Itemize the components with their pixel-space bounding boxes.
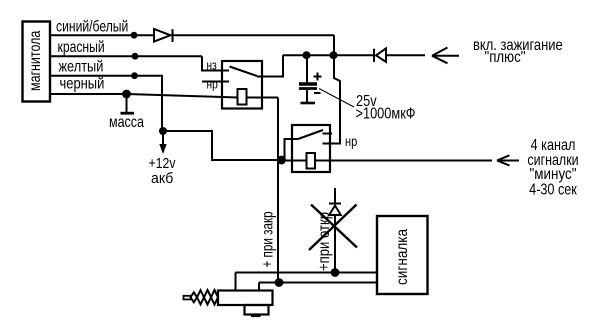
diode VD1 on синий/белый [154,29,171,42]
relay K1 switch arm [230,67,258,77]
arrow to alarm channel [497,160,519,162]
node К2 common junction [277,156,286,165]
relay K1 coil [238,89,247,105]
actuator body [218,291,273,306]
wire желтый [50,76,162,131]
wire coil/node/закр vertical [277,98,279,283]
relay K1 common wire [257,55,283,76]
actuator bellows [191,292,198,302]
relay K2 upper contact [323,133,333,135]
svg-text:нр: нр [207,77,218,91]
svg-text:4-30 сек: 4-30 сек [529,181,577,199]
svg-text:акб: акб [151,171,173,187]
svg-text:черный: черный [60,75,105,93]
wire top horizontal to cap node [333,35,335,55]
label + capacitor [314,76,322,78]
svg-text:синий/белый: синий/белый [56,18,128,36]
wire +12v to node [163,131,282,160]
annotation line 25v [319,89,354,108]
relay K2 switch arm [298,130,323,139]
svg-text:нз: нз [207,58,217,72]
actuator rod tip [184,296,192,300]
wire 4 канал [330,160,492,162]
svg-text:>1000мкФ: >1000мкФ [356,105,416,123]
relay K2 box [292,125,330,172]
label - capacitor [314,92,321,94]
wire to сигналка opening [259,282,377,284]
сигналка box [377,216,428,294]
svg-text:+12v: +12v [149,155,176,171]
relay K2 common wire [285,139,299,158]
wire красный [50,55,202,57]
diode VD3 crossed [329,203,341,205]
svg-text:+ при закр: + при закр [258,211,276,267]
svg-text:+при откр: +при откр [316,212,333,271]
wire черный [50,93,127,95]
relay K1 нз contact [201,70,229,72]
actuator terminal wires [235,273,237,291]
cross-out X [311,205,357,248]
diode VD2 [373,49,375,62]
svg-text:желтый: желтый [59,58,104,76]
wire синий/белый [50,34,154,36]
svg-text:"плюс": "плюс" [485,49,526,66]
svg-text:масса: масса [109,114,144,132]
relay K1 нр contact [202,81,229,83]
wire при откр (crossed) [334,188,336,204]
arrow ignition [432,55,459,57]
магнитола box [23,22,51,102]
capacitor C1 [306,55,308,82]
node +12v акб [159,127,167,135]
svg-text:красный: красный [58,38,105,56]
relay K2 нр contact wire [323,55,341,143]
relay K1 box [222,61,262,109]
wire to сигналка closing [236,272,378,274]
svg-text:нр: нр [345,134,357,149]
ground масса [126,94,128,113]
svg-text:сигналка: сигналка [394,228,411,285]
svg-text:магнитола: магнитола [27,31,45,91]
relay K2 coil [307,153,316,169]
